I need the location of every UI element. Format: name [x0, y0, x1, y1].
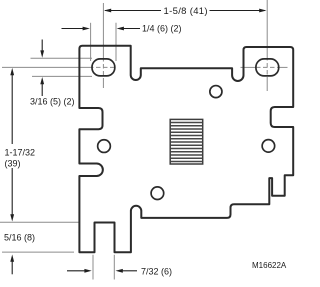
- svg-text:7/32 (6): 7/32 (6): [141, 266, 172, 276]
- svg-text:5/16 (8): 5/16 (8): [4, 233, 35, 243]
- svg-text:(39): (39): [5, 159, 21, 169]
- svg-text:3/16 (5) (2): 3/16 (5) (2): [30, 97, 75, 107]
- svg-text:1/4 (6) (2): 1/4 (6) (2): [142, 23, 182, 33]
- svg-text:M16622A: M16622A: [252, 261, 287, 270]
- svg-text:1-17/32: 1-17/32: [5, 147, 36, 157]
- svg-text:1-5/8 (41): 1-5/8 (41): [164, 6, 208, 17]
